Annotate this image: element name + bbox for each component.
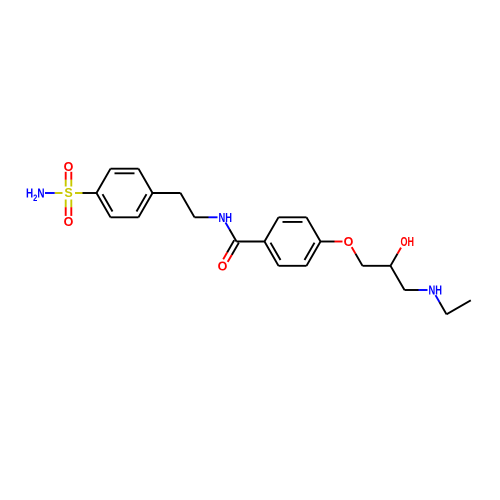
- bond ringA-CH2a: [153, 192, 181, 194]
- ring A edge R-BR: [139, 193, 153, 217]
- ring B edge C1-TL: [265, 217, 279, 241]
- svg-text:O: O: [218, 259, 228, 273]
- bond CH-OH: [391, 254, 398, 266]
- bond N-S: [45, 192, 55, 194]
- ring A inner double (top): [115, 172, 135, 174]
- svg-text:NH: NH: [219, 211, 233, 225]
- ring B edge TL-TR: [279, 216, 307, 218]
- ring B edge TR-R: [307, 217, 321, 241]
- svg-text:S: S: [64, 186, 72, 200]
- bond NH-CH2(ethyl): [436, 295, 440, 302]
- ring A edge C1-TL: [97, 169, 111, 193]
- ring B edge BR-BL: [279, 265, 307, 267]
- ring A inner double (right-bottom): [137, 194, 147, 211]
- ring A edge TL-TR: [111, 168, 139, 170]
- S=O top double bond: [70, 180, 72, 187]
- bond S-C1 (ring A ipso): [75, 192, 83, 194]
- ring A inner double (left-bottom): [103, 194, 113, 211]
- ring B inner double (right-bottom): [305, 243, 315, 260]
- bond N(amide)-C carbonyl: [226, 223, 230, 230]
- svg-text:O: O: [344, 235, 354, 249]
- bond CH2b-N(amide): [195, 216, 209, 218]
- svg-text:OH: OH: [401, 235, 415, 249]
- ring B inner double (left-bottom): [271, 243, 281, 260]
- bond CH2-NH: [405, 289, 419, 291]
- bond ringB-O(ether): [321, 241, 335, 243]
- svg-text:H2N: H2N: [26, 187, 45, 205]
- C=O carbonyl double bond: [227, 240, 234, 252]
- ring B edge BL-C1: [265, 242, 279, 266]
- bond O(ether)-CH2: [352, 247, 356, 254]
- bond carbonylC-ringB: [237, 241, 265, 243]
- S=O bottom double bond: [65, 200, 67, 208]
- ring A edge BL-C1: [97, 193, 111, 217]
- svg-text:O: O: [64, 215, 74, 229]
- bond CH-CH2: [391, 266, 405, 290]
- ring A edge TR-R: [139, 169, 153, 193]
- bond CH2-CH3(ethyl): [447, 300, 471, 314]
- ring B edge R-BR: [307, 242, 321, 266]
- bond CH2-CH(OH): [363, 265, 391, 267]
- bond CH2a-CH2b: [181, 193, 195, 217]
- svg-text:NH: NH: [429, 284, 443, 298]
- ring A edge BR-BL: [111, 216, 139, 218]
- ring B inner double (top): [283, 221, 303, 223]
- svg-text:O: O: [64, 160, 74, 174]
